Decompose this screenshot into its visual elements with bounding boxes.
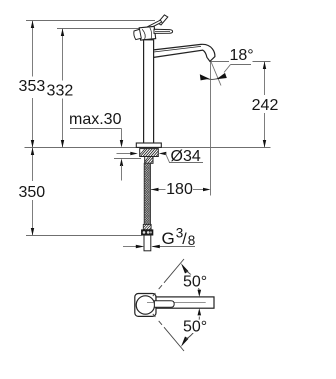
mounting washer hatched (140, 149, 159, 157)
dimension 332 arrow up (61, 29, 64, 37)
lower 50° swivel line (153, 314, 184, 351)
Ø34 arrow left (117, 152, 138, 155)
dimension 332 line (62, 29, 64, 148)
dimension 180 arrow left (151, 188, 159, 191)
top view lever from above (154, 301, 174, 308)
hose bottom reference line (350 datum) (26, 235, 142, 237)
faucet body column (144, 40, 154, 143)
upper 50° arc (186, 271, 200, 292)
18° arc with arrows (200, 75, 222, 79)
max.30 arrow up below counter (120, 159, 123, 167)
svg-text:242: 242 (252, 97, 279, 114)
svg-text:180: 180 (166, 181, 193, 198)
dimension 180 arrow right (203, 188, 211, 191)
spout axis vertical line (210, 62, 212, 196)
svg-text:max.30: max.30 (69, 111, 122, 128)
svg-text:8: 8 (188, 233, 196, 248)
faucet handle boss left (134, 29, 141, 39)
G3/8 left arrow (123, 245, 144, 248)
svg-text:332: 332 (47, 83, 74, 100)
G3/8 leader with arrow (151, 245, 195, 248)
svg-text:350: 350 (18, 184, 45, 201)
lower 50° arc (186, 319, 200, 340)
upper 50° swivel line (153, 259, 184, 296)
max.30 leader underline (70, 129, 122, 141)
faucet base flange (136, 143, 161, 147)
svg-text:353: 353 (19, 78, 46, 95)
dimension 350 arrow down (31, 228, 34, 236)
dimension 242 arrow up (263, 62, 266, 70)
top view centerline (147, 302, 206, 304)
svg-text:18°: 18° (230, 47, 254, 64)
lower 50° arrow up at bar (198, 308, 202, 320)
18° angle vertical leg is spout axis; diagonal leg (211, 61, 222, 86)
svg-text:Ø34: Ø34 (171, 148, 201, 165)
dimension 242 line (264, 62, 266, 148)
dimension 242 arrow down (263, 140, 266, 148)
reference line 332 datum (57, 28, 142, 30)
dimension 353 line (32, 21, 34, 148)
Ø34 arrow right with leader (159, 152, 203, 163)
G3/8 threaded end tube (144, 235, 151, 251)
dimension 332 arrow down (61, 140, 64, 148)
18° leader (224, 65, 251, 73)
svg-text:50°: 50° (183, 274, 207, 291)
svg-text:/: / (182, 231, 187, 248)
hose end fitting hatched (143, 224, 151, 230)
reference line top (353 datum) (26, 20, 155, 22)
top view spout bar (156, 297, 214, 308)
svg-text:50°: 50° (183, 319, 207, 336)
max.30 arrow down at countertop (120, 140, 123, 148)
max.30 lower limit line (114, 158, 141, 160)
faucet lever bar (154, 29, 173, 33)
lower 50° arc arrow on line (181, 337, 189, 347)
threaded shank hatched (145, 157, 153, 164)
label 50° lower (182, 320, 206, 334)
top view body circle (136, 296, 154, 314)
faucet lever arm (148, 20, 162, 29)
faucet lever tip (158, 15, 168, 25)
faucet spout (154, 44, 215, 61)
dimension 350 arrow up (31, 148, 34, 156)
countertop line (25, 147, 271, 149)
label 50° upper (182, 275, 206, 289)
svg-text:G: G (162, 229, 175, 248)
label G 3/8 (162, 226, 196, 249)
dimension 353 arrow up (31, 21, 34, 29)
upper 50° arc arrow on line (181, 263, 189, 273)
top view base square (135, 294, 156, 317)
dimension 180 line (151, 189, 204, 191)
dimension 353 arrow down (31, 140, 34, 148)
dimension 350 line (32, 148, 34, 236)
spout outlet reference line (242 datum, broken for 18° text) (211, 61, 271, 63)
flexible braided hose (144, 163, 150, 224)
connector nut (142, 230, 153, 235)
faucet cartridge box (139, 26, 156, 40)
upper 50° arrow down at bar (198, 290, 202, 297)
